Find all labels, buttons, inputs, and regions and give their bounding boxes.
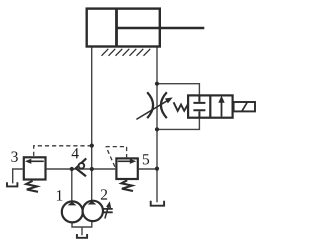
- node: junction main line / right vertical: [155, 167, 159, 171]
- check valve 4 ball: [79, 163, 85, 169]
- cylinder body: [87, 9, 160, 47]
- node: junction pilot/vertical: [90, 144, 94, 148]
- tank symbol (right, under throttle line): [151, 201, 164, 206]
- valve 3 arrow: [28, 160, 43, 162]
- node: junction main line / pump1: [70, 167, 74, 171]
- value label 4: [72, 148, 79, 158]
- pump 2 circle: [83, 201, 103, 221]
- pump 2 outlet triangle: [88, 201, 97, 205]
- throttle adjustment arrow: [136, 100, 169, 120]
- pump 1 outlet triangle: [68, 202, 77, 206]
- wire: bypass bottom: [157, 118, 199, 129]
- pump 2 compensator bars: [103, 209, 112, 212]
- tank symbol (valve 3): [7, 182, 17, 186]
- value label 1: [57, 190, 62, 200]
- piston: [115, 9, 118, 47]
- valve 5 spring: [121, 180, 133, 191]
- wire: valve3 outlet to tank: [13, 169, 23, 183]
- value label 5: [143, 154, 149, 164]
- blocked port symbols (left square): [193, 95, 205, 117]
- pump 1 circle: [62, 201, 83, 222]
- value label 2: [101, 189, 107, 199]
- wire: main horizontal line left section: [47, 168, 116, 170]
- pilot line (dashed) valve 3: [34, 146, 91, 156]
- pilot line (dashed) valve 5: [106, 147, 126, 167]
- valve 5 arrow: [118, 160, 133, 162]
- wire: bypass top: [157, 84, 199, 96]
- mounting hatching: [102, 49, 151, 56]
- wire: main horizontal line right section: [139, 168, 157, 170]
- node: junction bypass bottom: [155, 127, 159, 131]
- relief valve 3 body: [24, 157, 46, 179]
- node: junction main line / pump2 vertical: [90, 167, 94, 171]
- node: junction bypass top: [155, 82, 159, 86]
- wire: cylinder right port / main right vertical: [156, 48, 158, 203]
- wire: pump suction lines to tank: [72, 222, 92, 236]
- directional valve U1 body (2 squares): [188, 95, 233, 117]
- flow control valve (throttle) arcs: [147, 92, 167, 118]
- piston rod: [117, 27, 205, 30]
- pump 2 variable arrow: [105, 206, 109, 219]
- wire: cylinder left port line: [91, 48, 93, 201]
- value label 3: [11, 151, 17, 161]
- check valve 4 seat: [76, 158, 86, 176]
- wire: pump1 outlet line: [71, 169, 73, 201]
- relief valve 5 body: [116, 158, 137, 179]
- valve 3 spring: [26, 181, 38, 192]
- tank symbol (pumps): [77, 234, 87, 238]
- valve actuator (lever): [234, 102, 255, 111]
- flow arrow (right square): [221, 101, 223, 117]
- valve spring (w): [174, 102, 189, 111]
